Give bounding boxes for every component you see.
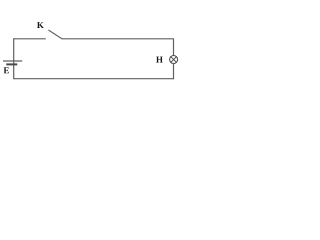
wire right vertical lower	[173, 64, 175, 80]
wire top left segment	[14, 38, 46, 40]
switch label K	[37, 22, 44, 28]
wire bottom	[14, 78, 174, 80]
wire right vertical upper	[173, 39, 175, 56]
battery E plates	[3, 61, 22, 64]
wire top right segment	[62, 38, 174, 40]
switch K blade	[48, 30, 62, 39]
battery label E	[4, 67, 9, 73]
wire left vertical	[13, 38, 15, 79]
lamp label H	[156, 57, 163, 63]
lamp H symbol	[170, 56, 178, 64]
